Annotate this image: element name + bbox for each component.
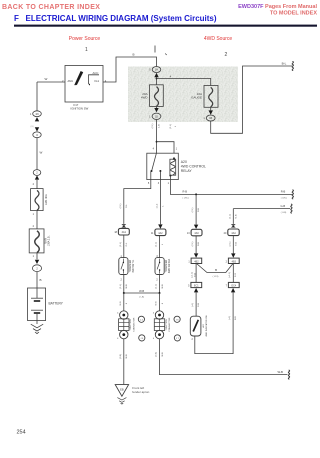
connector EC1 [191, 282, 202, 287]
wire column1 to link [123, 275, 125, 294]
svg-text:4B3: 4B3 [232, 260, 237, 263]
arrow up below connector 2 [35, 175, 39, 179]
mating arrows column4 [231, 224, 236, 227]
svg-text:EB: EB [120, 388, 124, 392]
svg-text:TRANSFER: TRANSFER [165, 259, 168, 272]
svg-text:fender apron: fender apron [132, 390, 149, 394]
wire relay pin1 to R-B continuation [170, 180, 292, 195]
svg-text:4A2: 4A2 [158, 232, 163, 235]
arrow down above 4B2 [194, 253, 198, 257]
svg-text:4A1: 4A1 [122, 231, 127, 234]
svg-text:JUNCTION: JUNCTION [130, 319, 132, 330]
svg-text:4A3: 4A3 [194, 232, 199, 235]
wire ignition right to fuse box [103, 57, 157, 82]
svg-text:EC4: EC4 [231, 285, 236, 288]
svg-text:(+1): (+1) [192, 303, 194, 307]
svg-text:G-B: G-B [198, 303, 200, 307]
svg-text:(+1-1): (+1-1) [229, 272, 231, 278]
node relay branch [156, 141, 158, 143]
continuation symbol R-B [292, 190, 293, 199]
svg-text:W-B: W-B [278, 370, 284, 374]
arrow down above 1B [209, 110, 213, 114]
junction connector column2 top ring [155, 311, 163, 319]
svg-text:( I-B): ( I-B) [139, 296, 144, 298]
svg-text:Power Source: Power Source [69, 36, 101, 42]
svg-text:W-B: W-B [162, 284, 164, 289]
svg-text:G-B: G-B [281, 204, 286, 208]
connector EC4 [228, 282, 239, 287]
wire 1H to fuse 4WD [156, 77, 158, 85]
svg-text:EC1: EC1 [194, 285, 199, 288]
svg-text:G-B: G-B [195, 273, 197, 277]
wire below GAUGE fuse [210, 107, 212, 110]
junction block column1 [119, 319, 129, 331]
svg-text:(1-J): (1-J) [157, 203, 159, 208]
wire column2 to link [159, 275, 161, 294]
connector 4A4 [228, 229, 239, 236]
wire column3 from node [195, 194, 197, 224]
continuation symbol G-B [291, 204, 292, 213]
IG1 contact dot [89, 84, 91, 86]
svg-text:(2-L): (2-L) [152, 123, 154, 128]
ignition switch F17 box [65, 66, 103, 103]
connector 4A1 [118, 228, 129, 235]
svg-text:W-B: W-B [126, 354, 128, 359]
connector 4B2 [191, 258, 202, 263]
svg-text:( I-19): ( I-19) [213, 276, 219, 278]
svg-text:(2-L): (2-L) [229, 214, 231, 219]
svg-text:BACK TO CHAPTER INDEX: BACK TO CHAPTER INDEX [2, 4, 100, 11]
wire to battery [36, 272, 38, 288]
fuse 10A GAUGE [204, 86, 218, 108]
svg-text:(2-L): (2-L) [120, 203, 122, 208]
svg-text:W: W [40, 151, 43, 155]
arrow down column3 [194, 225, 198, 229]
svg-text:F ELECTRICAL WIRING DIAGRAM: F ELECTRICAL WIRING DIAGRAM (System Circ… [14, 14, 217, 23]
svg-text:B: B [133, 52, 135, 56]
svg-text:ACC: ACC [93, 71, 99, 75]
svg-text:TRANSFER: TRANSFER [129, 259, 132, 272]
svg-text:TO MODEL INDEX: TO MODEL INDEX [270, 11, 317, 17]
wire left column drop [36, 82, 38, 111]
battery box [28, 288, 46, 321]
wire below fuse 4WD [156, 106, 158, 108]
ground EB triangle [115, 385, 128, 397]
wire down to connector 2 [36, 138, 38, 170]
tick mark top [154, 46, 156, 53]
svg-text:4WD: 4WD [141, 96, 149, 100]
battery plates [31, 297, 43, 299]
arrow up below EC1 [194, 288, 198, 292]
svg-text:W-B: W-B [156, 301, 158, 306]
relay coil [173, 157, 175, 159]
svg-text:W-B: W-B [120, 301, 122, 306]
wire column2 to W-B continuation [160, 339, 288, 375]
svg-text:(2-B): (2-B) [120, 354, 122, 359]
connector 1H [152, 67, 161, 73]
svg-text:G-B: G-B [235, 242, 237, 246]
4wd indicator switch box [190, 316, 201, 336]
wire column3 to EC1 [195, 264, 197, 283]
wire relay pin3 to column2 [159, 180, 161, 225]
wire G-B continuation to column4 [233, 208, 290, 210]
connector 1D [152, 113, 161, 119]
ring J7 side circle [174, 335, 180, 341]
svg-text:IG1: IG1 [95, 79, 100, 83]
link wire W-B between columns [124, 292, 160, 294]
arrow up below 1I6 [35, 117, 39, 121]
wire column4 down [232, 209, 234, 224]
svg-text:2: 2 [225, 52, 228, 58]
svg-text:(2-L): (2-L) [156, 242, 158, 247]
transfer indicator switch box [119, 258, 128, 275]
wire column1 to ground [123, 339, 125, 384]
connector IJ [33, 132, 41, 138]
svg-text:(2-L): (2-L) [120, 284, 122, 289]
svg-text:R-B: R-B [281, 190, 286, 194]
svg-text:L-B: L-B [159, 124, 161, 128]
svg-text:R-B: R-B [198, 242, 200, 246]
node branch to GAUGE fuse [156, 78, 158, 80]
wire column3 to 4B2 [195, 236, 197, 254]
relay contact pins [151, 171, 161, 179]
svg-text:( I-RL): ( I-RL) [183, 197, 189, 199]
ACC contact bracket [89, 75, 100, 84]
connector 4A3 [191, 229, 202, 236]
svg-text:( I-RL): ( I-RL) [281, 198, 287, 200]
svg-text:(2-L): (2-L) [192, 241, 194, 246]
fusible link AM1 [31, 189, 43, 211]
wire between fuses [36, 211, 38, 229]
svg-text:W-B: W-B [162, 352, 164, 357]
wire column2 to 4wd sw [159, 236, 161, 258]
svg-text:1D: 1D [155, 115, 158, 118]
wire 1D to relay [156, 120, 158, 154]
svg-text:(2-L): (2-L) [229, 241, 231, 246]
ground chevrons [117, 398, 126, 405]
svg-text:B: B [215, 268, 217, 272]
junction connector column1 bottom ring [120, 330, 128, 338]
wire ignition left [37, 81, 65, 83]
svg-text:1: 1 [85, 47, 88, 53]
ring J4 side circle [138, 316, 144, 322]
svg-text:BATTERY: BATTERY [49, 302, 64, 306]
svg-text:IGNITION SW: IGNITION SW [71, 106, 89, 110]
fuse 20A 4WD [150, 85, 164, 107]
svg-text:(+1-1): (+1-1) [192, 272, 194, 278]
wire to fuse AM1 [36, 180, 38, 189]
svg-text:AM1: AM1 [68, 79, 74, 83]
wire column1 to junction connector [123, 293, 125, 311]
svg-text:AM1 40A: AM1 40A [44, 194, 48, 205]
svg-text:R-B: R-B [198, 208, 200, 212]
svg-text:100A 2.0L: 100A 2.0L [48, 235, 51, 246]
svg-text:4B2: 4B2 [194, 260, 199, 263]
arrow up below 1H [154, 73, 158, 77]
connector 4B3 [228, 258, 239, 263]
svg-text:B-L: B-L [282, 61, 287, 65]
svg-text:(IJ): (IJ) [31, 126, 34, 128]
svg-text:IND SW T11: IND SW T11 [133, 259, 135, 272]
svg-text:(2-B): (2-B) [156, 352, 158, 357]
continuation symbol B-L [292, 62, 293, 71]
svg-text:W-B: W-B [126, 284, 128, 289]
junction block column2 [154, 319, 164, 331]
svg-text:A20: A20 [181, 160, 187, 164]
wire EC1 to indicator sw [195, 292, 197, 316]
svg-text:4WD SW A6A: 4WD SW A6A [168, 258, 171, 273]
arrow down above IJ connector [35, 127, 39, 131]
svg-text:RELAY: RELAY [181, 169, 193, 173]
svg-text:(+1): (+1) [229, 316, 231, 320]
svg-text:G-O: G-O [235, 273, 237, 277]
svg-text:(2-L): (2-L) [170, 124, 172, 129]
wire branch to GAUGE fuse [157, 79, 211, 86]
wire column2 to junction connector [159, 293, 161, 311]
svg-text:4A4: 4A4 [231, 232, 236, 235]
wire column1 to transfer sw [123, 235, 125, 258]
arrow down column2 [158, 224, 162, 228]
svg-text:CONNECTOR: CONNECTOR [169, 317, 171, 331]
connector 4A2 [155, 229, 166, 236]
arrow down above 4B3 [231, 253, 235, 257]
svg-text:(2-L): (2-L) [192, 207, 194, 212]
svg-text:1B: 1B [209, 117, 212, 120]
svg-text:(2-L): (2-L) [156, 284, 158, 289]
svg-text:W: W [45, 77, 48, 81]
fuse block shaded area [128, 67, 238, 123]
wire to battery connector [36, 253, 38, 260]
connector 1I6 [33, 111, 42, 117]
wire column4 to 4B3 [232, 236, 234, 254]
relay A20 box [147, 153, 179, 179]
svg-text:GAUGE: GAUGE [191, 96, 202, 100]
relay contact blade [152, 153, 157, 170]
svg-text:B-R: B-R [235, 316, 237, 320]
connector 1B [206, 115, 215, 121]
battery terminal connector [32, 265, 41, 272]
ignition switch blade [75, 71, 84, 85]
connector 2 oval [33, 170, 41, 176]
svg-text:W-B: W-B [139, 289, 144, 293]
svg-text:R-B: R-B [183, 190, 188, 194]
junction connector J4 column1 top ring [120, 311, 128, 319]
continuation symbol W-B [288, 370, 289, 379]
svg-text:( I-IB): ( I-IB) [281, 212, 287, 214]
wire GAUGE loop to B-L [211, 66, 293, 133]
arrow down above battery connector [35, 260, 39, 264]
svg-text:JUNCTION: JUNCTION [166, 319, 168, 330]
transfer 4wd switch box [155, 258, 164, 275]
ring J5 side circle [139, 335, 145, 341]
svg-text:(2-L): (2-L) [120, 242, 122, 247]
mating arrows column1 [121, 224, 126, 227]
svg-text:1H: 1H [155, 69, 158, 72]
tick mark small [165, 54, 167, 56]
svg-text:EWD307F Pages From Manual: EWD307F Pages From Manual [238, 4, 317, 10]
svg-text:4WD INDICATOR SW: 4WD INDICATOR SW [205, 314, 208, 336]
crossover wire B between 4B2 and 4B3 [197, 264, 234, 273]
return wire indicator sw to column4 [195, 292, 233, 353]
ground below battery [36, 321, 38, 325]
svg-text:B: B [40, 278, 42, 282]
ring J6 side circle [174, 316, 180, 322]
arrow up below EC4 [231, 288, 235, 292]
svg-text:254: 254 [17, 430, 26, 436]
svg-text:G-B: G-B [235, 214, 237, 218]
svg-text:CONNECTOR: CONNECTOR [133, 317, 135, 331]
node column3 branch [195, 193, 197, 195]
arrow down above 1D [154, 108, 158, 112]
svg-text:4WD CONTROL: 4WD CONTROL [181, 165, 206, 169]
fusible link MAIN [29, 229, 44, 253]
junction connector column2 bottom ring [155, 330, 163, 338]
wire relay pin5 to column1 [124, 180, 151, 224]
svg-text:4WD Source: 4WD Source [204, 36, 233, 42]
wire column4 to EC4 [232, 264, 234, 283]
title underline [14, 25, 317, 27]
wire branch to relay coil [157, 142, 175, 154]
